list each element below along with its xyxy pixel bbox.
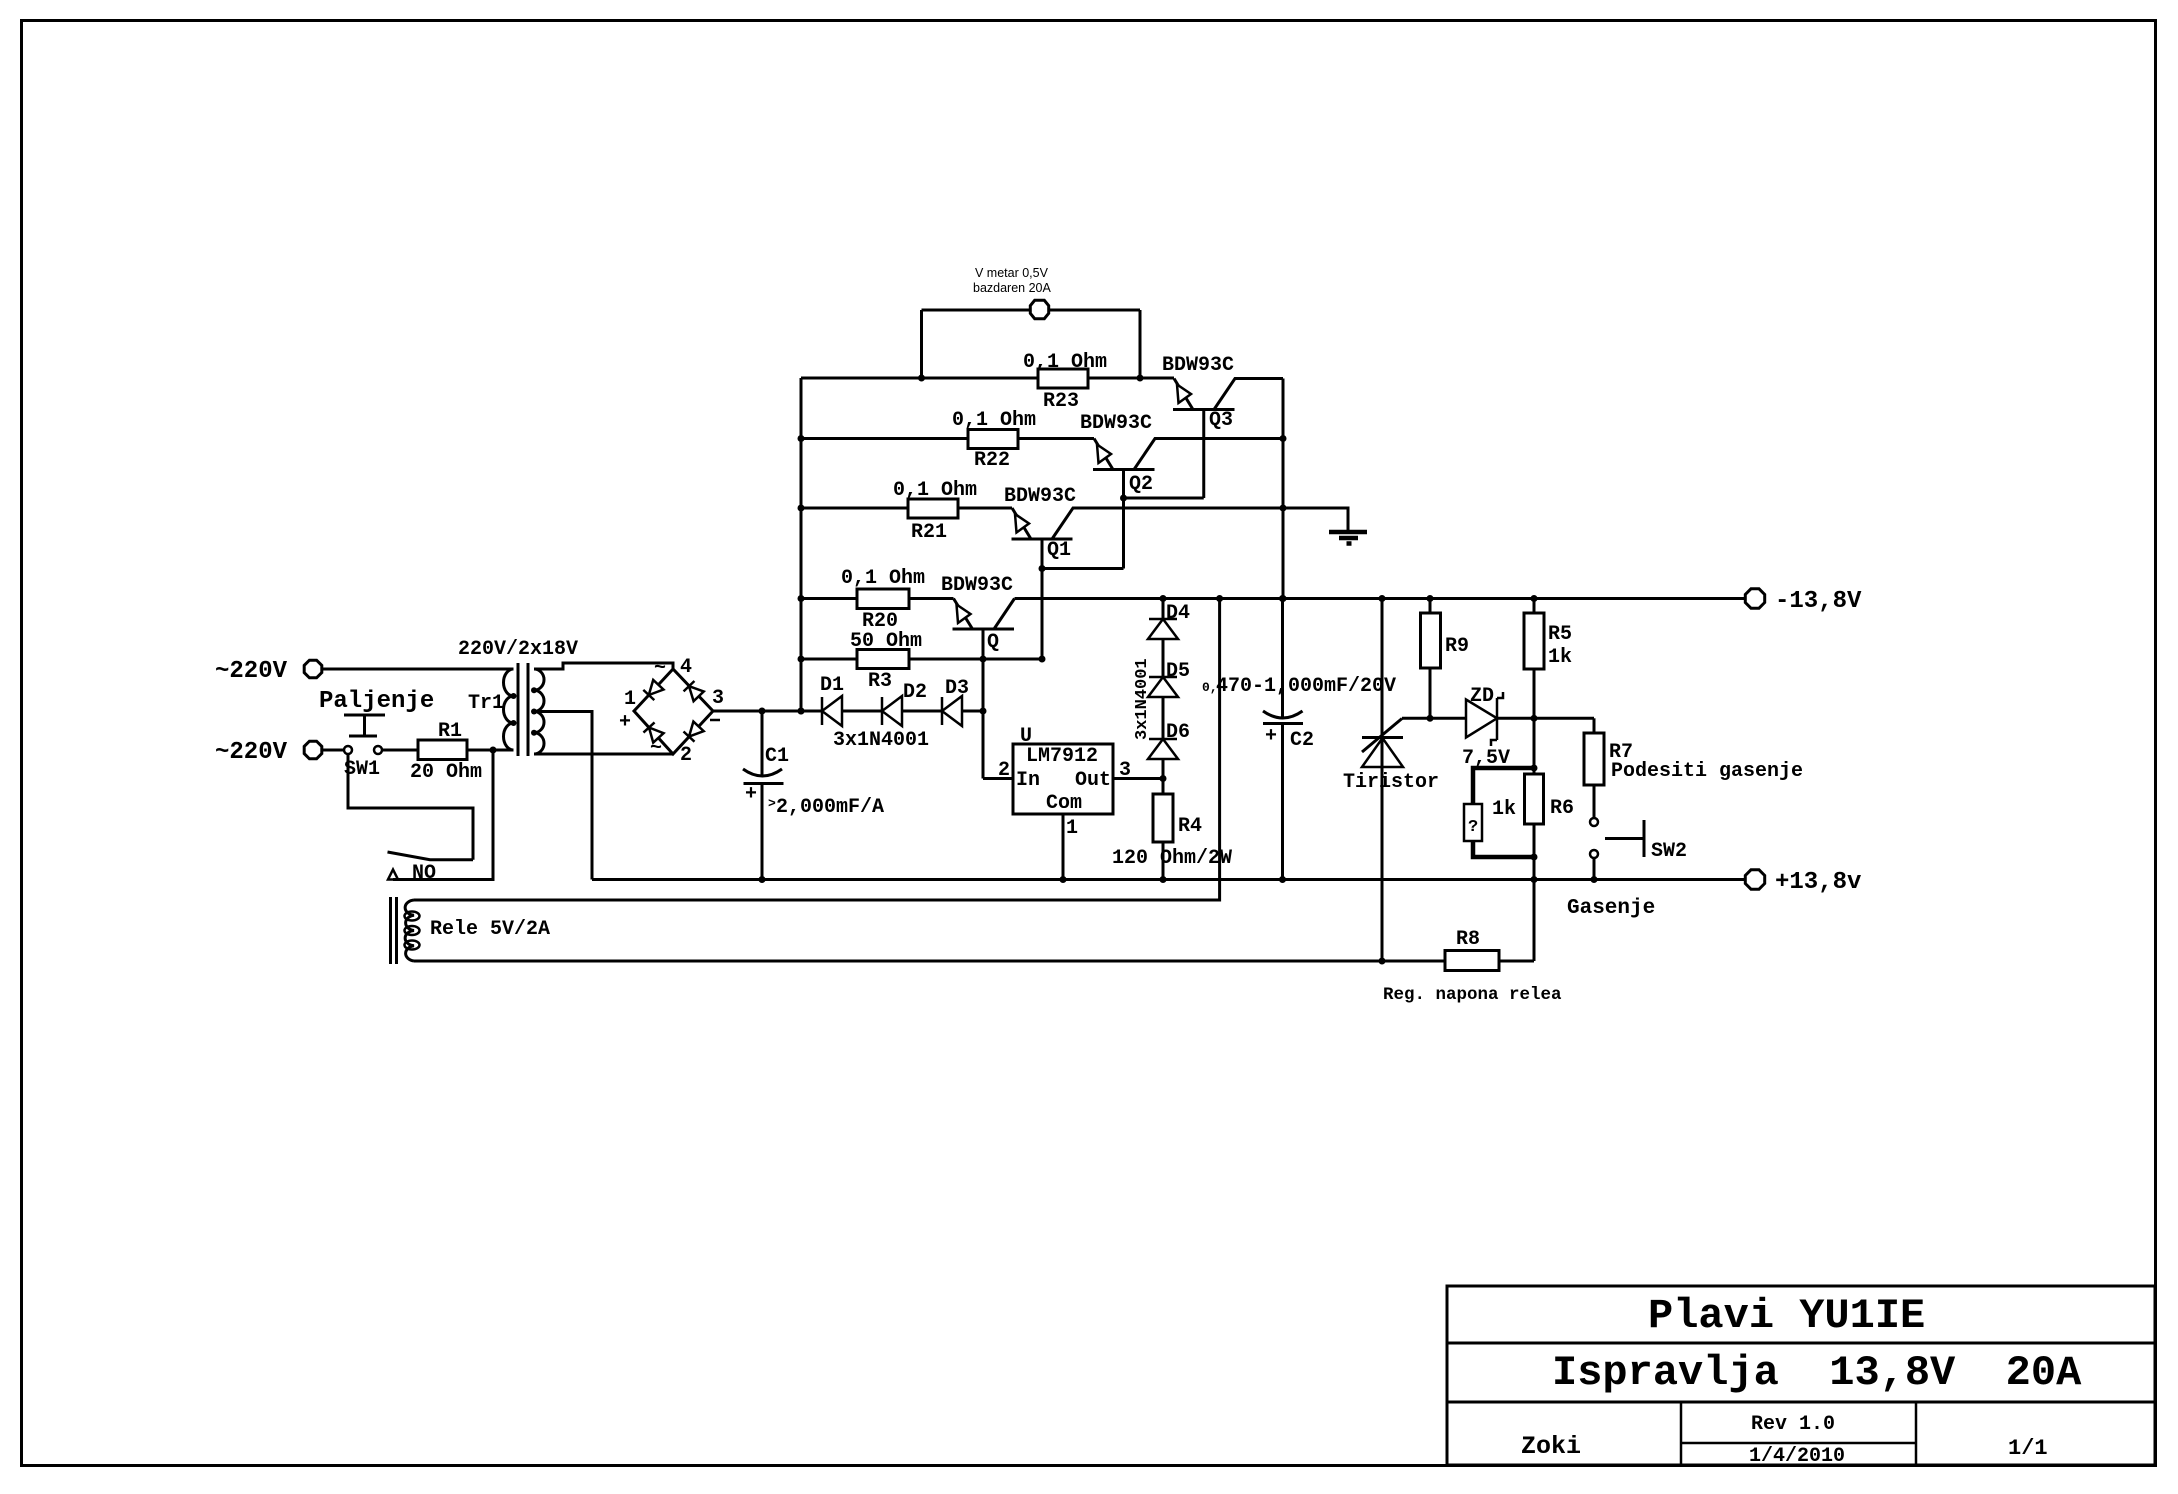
wire zener to R5/R6 node	[1497, 715, 1595, 722]
svg-text:LM7912: LM7912	[1026, 745, 1098, 768]
svg-text:2,000mF/A: 2,000mF/A	[776, 796, 884, 819]
svg-text:+13,8v: +13,8v	[1775, 869, 1861, 896]
wire regulator out (pin 3)	[1113, 775, 1167, 782]
svg-text:?: ?	[1468, 818, 1478, 837]
svg-text:Out: Out	[1075, 769, 1111, 792]
svg-text:R8: R8	[1456, 928, 1480, 951]
resistor R20 0,1 Ohm	[801, 567, 954, 633]
svg-text:R23: R23	[1043, 390, 1079, 413]
ground	[1283, 508, 1367, 544]
diode D1 1N4001	[820, 674, 844, 726]
svg-text:3x1N4001: 3x1N4001	[833, 729, 929, 752]
wire D5 to D6	[1162, 697, 1165, 739]
wire -13.8V output rail	[1015, 595, 1745, 602]
resistor R3 50 Ohm	[801, 630, 1046, 693]
svg-text:R21: R21	[911, 521, 947, 544]
svg-text:Tiristor: Tiristor	[1343, 771, 1439, 794]
svg-text:bazdaren 20A: bazdaren 20A	[973, 281, 1052, 295]
terminal +13,8v	[1745, 869, 1861, 896]
diode D2 1N4001	[882, 681, 927, 726]
svg-text:1/4/2010: 1/4/2010	[1749, 1445, 1845, 1468]
svg-text:Paljenje: Paljenje	[319, 688, 434, 715]
svg-text:Q2: Q2	[1129, 473, 1153, 496]
resistor R21 0,1 Ohm	[801, 479, 1012, 544]
svg-text:In: In	[1016, 769, 1040, 792]
wire collectors to output (right vertical)	[1280, 379, 1287, 603]
resistor R9	[1421, 599, 1470, 719]
wire regulator com (pin 1)	[1060, 814, 1067, 883]
svg-text:4: 4	[680, 656, 692, 679]
svg-text:R4: R4	[1178, 815, 1202, 838]
wire SW1 to R1	[382, 749, 418, 752]
terminal P1 ~220V line	[215, 658, 322, 685]
wire +13.8V output rail	[592, 878, 1744, 881]
transistor Q3 BDW93C	[1162, 354, 1283, 498]
relay contact NO	[388, 750, 494, 885]
diode D5 1N4001	[1148, 660, 1190, 697]
svg-text:R3: R3	[868, 670, 892, 693]
wire P2 to SW1	[323, 749, 344, 752]
svg-text:Q3: Q3	[1209, 409, 1233, 432]
svg-text:D6: D6	[1166, 721, 1190, 744]
wire D4 to D5	[1162, 639, 1165, 677]
svg-text:Zoki: Zoki	[1521, 1432, 1581, 1461]
svg-text:D5: D5	[1166, 660, 1190, 683]
wire bridge node 3 to D1 (minus bus)	[713, 708, 822, 715]
svg-text:R5: R5	[1548, 623, 1572, 646]
svg-text:R6: R6	[1550, 797, 1574, 820]
capacitor C2 0,470-1,000mF/20V	[1202, 599, 1396, 884]
resistor R4 120 Ohm/2W	[1112, 794, 1232, 883]
wire secondary bottom to bridge node 2	[534, 753, 673, 756]
regulator U LM7912	[998, 725, 1131, 840]
svg-text:~: ~	[650, 737, 662, 760]
svg-text:R22: R22	[974, 449, 1010, 472]
svg-text:Q1: Q1	[1047, 539, 1071, 562]
potentiometer 1k (trimmer)	[1464, 768, 1534, 857]
wire left bus (bridge minus to emitter resistors)	[798, 378, 805, 715]
label Reg. napona relea	[1383, 985, 1562, 1005]
svg-text:+: +	[745, 783, 757, 806]
wire D2 to D3	[902, 710, 942, 713]
svg-text:120 Ohm/2W: 120 Ohm/2W	[1112, 847, 1232, 870]
wire zener row (thyristor gate)	[1402, 715, 1466, 722]
svg-text:Q: Q	[987, 631, 999, 654]
svg-text:BDW93C: BDW93C	[1162, 354, 1234, 377]
svg-text:C1: C1	[765, 745, 789, 768]
terminal -13,8V	[1745, 588, 1862, 615]
transformer Tr1 220V/2x18V	[458, 638, 578, 756]
wire SW1 bypass to relay contact	[348, 754, 473, 860]
svg-text:Rev 1.0: Rev 1.0	[1751, 1413, 1835, 1436]
svg-text:+: +	[619, 711, 631, 734]
svg-text:20 Ohm: 20 Ohm	[410, 761, 482, 784]
svg-text:~220V: ~220V	[215, 658, 288, 685]
wire Q2 base to Q3 base	[1120, 495, 1204, 502]
transistor Q1 BDW93C	[1004, 485, 1283, 659]
resistor R8	[1445, 928, 1534, 971]
wire R1 to transformer primary bottom	[467, 747, 514, 754]
capacitor C1 2,000mF/A	[743, 711, 884, 883]
wire secondary center tap to +13.8V rail	[534, 712, 592, 880]
wire relay supply (output to relay coil)	[414, 599, 1220, 901]
svg-text:V metar 0,5V: V metar 0,5V	[975, 266, 1049, 280]
diode D4 1N4001	[1148, 599, 1190, 640]
svg-text:BDW93C: BDW93C	[941, 574, 1013, 597]
svg-text:3x1N4001: 3x1N4001	[1133, 658, 1152, 740]
resistor R22 0,1 Ohm	[801, 409, 1094, 472]
svg-text:1: 1	[624, 688, 636, 711]
svg-text:BDW93C: BDW93C	[1004, 485, 1076, 508]
svg-text:Com: Com	[1046, 792, 1082, 815]
svg-text:NO: NO	[412, 862, 436, 885]
svg-text:0,1 Ohm: 0,1 Ohm	[841, 567, 925, 590]
resistor R23 0,1 Ohm	[801, 351, 1174, 413]
resistor R5 1k	[1524, 599, 1572, 719]
svg-text:C2: C2	[1290, 729, 1314, 752]
thyristor Tiristor	[1343, 599, 1439, 962]
svg-text:Gasenje: Gasenje	[1567, 897, 1655, 920]
label 3x1N4001 (D1-D3)	[833, 729, 929, 752]
svg-text:D1: D1	[820, 674, 844, 697]
resistor R6 1k	[1525, 718, 1575, 961]
svg-text:Plavi YU1IE: Plavi YU1IE	[1648, 1292, 1925, 1340]
svg-text:R9: R9	[1445, 635, 1469, 658]
svg-text:~: ~	[654, 657, 666, 680]
wire P1 to transformer primary top	[323, 668, 514, 671]
svg-text:Podesiti gasenje: Podesiti gasenje	[1611, 760, 1803, 783]
svg-text:Tr1: Tr1	[468, 692, 504, 715]
ammeter V metar (shunt meter)	[918, 266, 1144, 382]
svg-text:1k: 1k	[1548, 646, 1572, 669]
svg-text:2: 2	[680, 744, 692, 767]
wire D3 to regulator input	[962, 708, 1013, 779]
diode D6 1N4001	[1148, 721, 1190, 759]
svg-text:-13,8V: -13,8V	[1775, 588, 1862, 615]
svg-text:SW2: SW2	[1651, 840, 1687, 863]
wire secondary top to bridge node 4	[534, 663, 673, 669]
wire D6 to R4	[1162, 759, 1165, 794]
svg-text:D2: D2	[903, 681, 927, 704]
relay coil Rele 5V/2A	[391, 897, 551, 964]
resistor R1 20 Ohm	[410, 720, 482, 784]
wire relay coil bottom to R8	[414, 958, 1445, 965]
svg-text:~220V: ~220V	[215, 739, 288, 766]
label 3x1N4001 (D4-D6, vertical)	[1133, 658, 1152, 740]
svg-text:D3: D3	[945, 677, 969, 700]
wire D1 to D2	[842, 710, 882, 713]
resistor R7 Podesiti gasenje	[1584, 718, 1803, 818]
svg-text:Reg. napona relea: Reg. napona relea	[1383, 985, 1562, 1005]
transistor Q BDW93C	[941, 574, 1015, 779]
svg-text:+: +	[1265, 725, 1277, 748]
terminal P2 ~220V neutral	[215, 739, 322, 766]
bridge rectifier diamond	[619, 656, 724, 767]
diode D3 1N4001	[942, 677, 969, 726]
svg-text:1: 1	[1066, 817, 1078, 840]
svg-text:BDW93C: BDW93C	[1080, 412, 1152, 435]
svg-text:D4: D4	[1166, 602, 1190, 625]
transistor Q2 BDW93C	[1080, 412, 1283, 569]
switch SW1 Paljenje	[319, 688, 434, 781]
title block	[1447, 1286, 2155, 1468]
zener diode ZD 7,5V	[1462, 685, 1510, 770]
svg-text:>: >	[768, 796, 776, 811]
svg-text:1/1: 1/1	[2008, 1436, 2048, 1461]
svg-text:Rele 5V/2A: Rele 5V/2A	[430, 918, 550, 941]
svg-text:1k: 1k	[1492, 798, 1516, 821]
switch SW2 Gasenje	[1567, 818, 1687, 920]
svg-text:220V/2x18V: 220V/2x18V	[458, 638, 578, 661]
svg-text:Ispravlja 13,8V 20A: Ispravlja 13,8V 20A	[1552, 1349, 2082, 1397]
svg-text:3: 3	[712, 687, 724, 710]
wire Q1 base to Q2 base	[1039, 565, 1124, 572]
svg-text:470-1,000mF/20V: 470-1,000mF/20V	[1216, 675, 1396, 698]
svg-text:2: 2	[998, 759, 1010, 782]
